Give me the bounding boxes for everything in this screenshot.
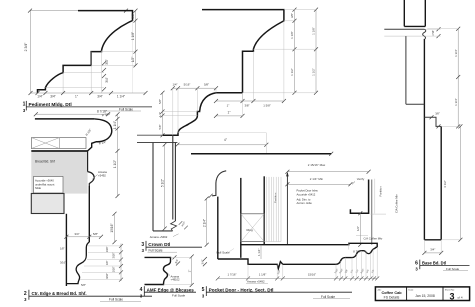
right dim extensions	[243, 10, 317, 93]
bottom strip profile	[218, 247, 377, 268]
svg-text:1 7/16": 1 7/16"	[227, 272, 236, 276]
dim 4 inch	[177, 144, 266, 146]
svg-text:Coffee Cab: Coffee Cab	[381, 291, 402, 295]
svg-text:6: 6	[415, 260, 418, 266]
bottom dim row line	[218, 277, 377, 279]
svg-text:3/4": 3/4"	[201, 259, 205, 264]
dim 2 1/4 min	[287, 183, 350, 185]
svg-text:2 1/4" Min: 2 1/4" Min	[310, 177, 324, 181]
svg-text:1": 1"	[228, 111, 231, 115]
dimension left height line	[30, 11, 32, 93]
dim 4 1/2	[459, 126, 461, 239]
svg-text:8 7/8": 8 7/8"	[353, 249, 361, 253]
svg-text:1 1/8": 1 1/8"	[131, 32, 135, 40]
svg-text:Ctr. Edge & Bread Bd. Shf.: Ctr. Edge & Bread Bd. Shf.	[32, 291, 87, 296]
upper crown right dim col B	[315, 10, 317, 93]
label rule detail 6	[420, 264, 470, 266]
svg-text:3/4": 3/4"	[50, 94, 56, 98]
svg-text:Jan 15, 2008: Jan 15, 2008	[415, 294, 435, 298]
svg-text:Crown Dtl: Crown Dtl	[148, 242, 170, 247]
break squiggle	[171, 221, 177, 231]
inner dim ticks column	[102, 61, 106, 91]
right wall inner line	[371, 180, 373, 245]
svg-text:Slide: Slide	[35, 186, 41, 190]
detail 4 dims	[173, 255, 181, 265]
svg-text:Full Scale: Full Scale	[172, 293, 186, 297]
svg-text:Full Scale: Full Scale	[321, 295, 335, 299]
bullnose edge	[88, 119, 112, 151]
svg-text:1 3/4": 1 3/4"	[454, 98, 458, 106]
accuride note box	[34, 177, 64, 194]
svg-text:2 1/4": 2 1/4"	[202, 219, 206, 227]
svg-text:4 1/2": 4 1/2"	[443, 180, 447, 188]
svg-text:5: 5	[202, 287, 205, 293]
right dim ticks	[134, 9, 138, 68]
dim 3/4 left	[203, 257, 207, 266]
upper crown profile	[202, 10, 284, 93]
svg-text:5/8": 5/8"	[81, 283, 86, 287]
svg-text:1 1/2": 1 1/2"	[312, 68, 316, 76]
svg-text:Amana +5492: Amana +5492	[150, 235, 168, 239]
svg-text:1 3/4": 1 3/4"	[454, 49, 458, 57]
dim line 3/4 5/8	[66, 236, 101, 238]
hatch X lines	[59, 138, 61, 149]
crown return left outer	[152, 143, 154, 231]
svg-text:5/8": 5/8"	[93, 232, 98, 236]
extension line vertical x=132.5	[132, 21, 134, 93]
lower cabinet box	[31, 194, 64, 214]
svg-text:Accuride +5412: Accuride +5412	[297, 192, 316, 196]
svg-text:Full Scale: Full Scale	[446, 267, 460, 271]
svg-text:1": 1"	[187, 270, 191, 273]
svg-text:AMF Edge @ Bkcases: AMF Edge @ Bkcases	[147, 287, 195, 292]
dim 1/2	[359, 213, 361, 245]
amana bump profile	[88, 172, 95, 186]
bottom dim ticks	[36, 91, 148, 95]
svg-text:3/8": 3/8"	[244, 103, 249, 107]
svg-text:Ring: Ring	[247, 228, 254, 232]
door leaf centerline arrow	[286, 173, 288, 245]
svg-text:Pediment Mldg. Dtl: Pediment Mldg. Dtl	[29, 102, 72, 108]
lower crown profile	[163, 93, 216, 135]
svg-text:Accuride +3640: Accuride +3640	[35, 179, 54, 183]
counter top surface	[35, 118, 95, 120]
bottom dim line	[31, 92, 146, 94]
svg-text:1": 1"	[75, 94, 78, 98]
svg-text:15/16": 15/16"	[308, 272, 316, 276]
dimension ticks top	[28, 9, 128, 13]
base board back line	[423, 39, 425, 240]
svg-text:3: 3	[449, 291, 454, 301]
svg-text:Bread Bd. Shf: Bread Bd. Shf	[35, 160, 55, 164]
svg-text:1/4": 1/4"	[158, 112, 162, 117]
extension line horizontal y=51.6	[102, 51, 137, 53]
svg-text:3/16": 3/16"	[113, 253, 116, 259]
crown left dim extensions	[163, 112, 198, 116]
extension line vertical x=63	[62, 73, 64, 93]
svg-text:under/flat mount: under/flat mount	[35, 182, 55, 186]
svg-text:+5492: +5492	[98, 173, 106, 177]
wall end tick	[329, 152, 333, 156]
ogee scribe profile	[423, 29, 426, 39]
svg-text:1 1/4": 1 1/4"	[117, 94, 125, 98]
svg-text:1 1/8": 1 1/8"	[259, 272, 266, 276]
svg-text:Full Scale: Full Scale	[217, 251, 231, 255]
shared middle line	[216, 92, 243, 94]
ring X	[241, 214, 264, 242]
base cap step	[424, 117, 441, 126]
counter bottom thick line	[31, 150, 88, 152]
svg-text:7/16": 7/16"	[431, 30, 435, 36]
divider 2	[442, 287, 444, 301]
label rule detail 1	[26, 106, 152, 108]
wall line	[137, 134, 163, 136]
divider 1	[406, 287, 408, 301]
extension line horizontal y=65.4	[91, 64, 136, 66]
svg-text:5 1/2": 5 1/2"	[160, 179, 164, 187]
dimension tick left bottom	[29, 91, 33, 95]
svg-text:Accom. Hdw.: Accom. Hdw.	[297, 201, 313, 205]
extension line horizontal y=72.7	[63, 72, 104, 74]
right dim col upper	[117, 114, 119, 196]
separator	[25, 101, 27, 111]
svg-text:1/8": 1/8"	[106, 261, 109, 265]
svg-text:1 1/2": 1 1/2"	[113, 160, 117, 168]
partition wall right line	[263, 176, 265, 244]
svg-text:15/16": 15/16"	[110, 223, 114, 232]
svg-text:5/8": 5/8"	[158, 124, 162, 129]
svg-text:C/A Coffee Mkr: C/A Coffee Mkr	[364, 236, 383, 240]
svg-text:3/4": 3/4"	[105, 77, 109, 83]
right dim col	[457, 29, 459, 127]
svg-text:3/4": 3/4"	[74, 232, 79, 236]
svg-text:3/8": 3/8"	[290, 13, 294, 18]
shelf bottom light line	[384, 35, 420, 37]
hatch box (counter substrate)	[31, 138, 86, 149]
svg-text:3/4": 3/4"	[97, 94, 103, 98]
svg-text:Base Bd. Dtl: Base Bd. Dtl	[422, 261, 446, 266]
dim 8 7/16	[36, 113, 108, 115]
counter edge lower ogee profile	[66, 242, 89, 284]
crown return left	[172, 135, 174, 219]
extension line horizontal y=87.7	[45, 87, 104, 89]
svg-text:2: 2	[24, 291, 27, 297]
label rule detail 3	[146, 246, 202, 248]
scribe left line	[403, 0, 405, 26]
dim 3/4 base	[424, 252, 441, 254]
svg-text:Pocket Door Inbw: Pocket Door Inbw	[297, 189, 318, 193]
right wall step	[350, 180, 368, 214]
svg-text:3/4": 3/4"	[105, 59, 109, 65]
svg-text:3/4": 3/4"	[430, 248, 435, 252]
svg-text:Amana +5492: Amana +5492	[247, 280, 265, 284]
dim 1 1/4 rotated	[260, 245, 262, 259]
top wall line	[191, 153, 331, 155]
cabinet face front line	[65, 214, 67, 286]
svg-text:3/16": 3/16"	[106, 273, 109, 279]
extension line vertical x=101.5	[101, 51, 103, 93]
upper crown bottom dim	[216, 100, 284, 102]
base board bottom	[424, 239, 441, 241]
extension lines strip	[248, 247, 377, 278]
svg-text:3/16": 3/16"	[60, 261, 66, 265]
svg-text:3/8": 3/8"	[435, 111, 440, 115]
scribe bottom	[404, 25, 425, 27]
svg-text:1/8": 1/8"	[60, 247, 65, 251]
svg-text:4: 4	[140, 287, 143, 293]
svg-text:5/16": 5/16"	[184, 83, 191, 87]
label rule detail 5	[206, 291, 352, 293]
shelf line	[384, 28, 424, 30]
svg-text:Date:: Date:	[409, 289, 415, 292]
tiny dim cluster	[80, 246, 121, 280]
svg-text:Partition: Partition	[274, 192, 278, 203]
svg-text:Pocket Door - Horiz. Sect. Dtl: Pocket Door - Horiz. Sect. Dtl	[209, 287, 274, 292]
break dim ticks	[179, 221, 188, 229]
svg-text:1 1/8": 1 1/8"	[290, 31, 294, 39]
svg-text:FS Details: FS Details	[384, 296, 400, 300]
crown left dim col	[162, 93, 164, 135]
svg-text:3/8": 3/8"	[131, 13, 135, 19]
svg-text:Partition: Partition	[379, 186, 383, 197]
ring blocking box	[241, 214, 264, 242]
svg-text:Full Scale: Full Scale	[149, 248, 163, 252]
right dim column line	[135, 11, 137, 66]
svg-text:1 1/8": 1 1/8"	[312, 27, 316, 35]
svg-text:2 3/4": 2 3/4"	[24, 42, 28, 52]
amana leader	[92, 175, 98, 180]
svg-text:Full Scale: Full Scale	[109, 298, 123, 302]
dim 1 inch	[216, 115, 243, 117]
dimension top width line	[30, 10, 126, 12]
base board face line	[440, 126, 442, 239]
pocket door leaf lines	[267, 177, 281, 242]
label rule detail 2	[29, 295, 152, 297]
svg-text:+49102: +49102	[171, 278, 181, 282]
crown return right	[174, 143, 176, 222]
svg-text:1 1/2": 1 1/2"	[290, 68, 294, 76]
channel bottom	[406, 103, 425, 105]
svg-text:5/8": 5/8"	[204, 83, 209, 87]
cabinet face back line	[88, 186, 90, 242]
crown return bottom	[153, 230, 173, 232]
dim 5 1/2 vertical	[164, 145, 166, 229]
upper crown right dim col A	[294, 10, 296, 93]
shelf right edge	[87, 151, 89, 172]
svg-text:1/16": 1/16"	[106, 246, 109, 252]
svg-text:1: 1	[23, 101, 26, 107]
dim 7/16	[437, 27, 441, 38]
svg-text:Adj. Dim. to: Adj. Dim. to	[297, 197, 311, 201]
svg-text:1/4": 1/4"	[172, 83, 177, 87]
shelf top line	[145, 257, 171, 284]
svg-text:C/A Coffee Mkr: C/A Coffee Mkr	[395, 194, 399, 213]
svg-text:1/2": 1/2"	[356, 226, 360, 231]
jamb front face	[217, 197, 219, 259]
svg-text:of 4: of 4	[458, 296, 463, 300]
dim 2 1/4 vertical	[206, 199, 208, 245]
crown top dim row	[173, 87, 216, 89]
dim 2 15/16 max	[287, 171, 368, 173]
crown top dim extensions	[173, 88, 216, 135]
svg-text:4": 4"	[224, 138, 227, 142]
svg-text:1 1/4": 1 1/4"	[257, 249, 261, 256]
svg-text:1/2": 1/2"	[131, 57, 135, 63]
svg-text:5/8": 5/8"	[158, 99, 162, 104]
bottom strip top line	[241, 243, 377, 247]
gray shelf fill	[31, 152, 87, 194]
channel left line	[405, 36, 407, 104]
svg-text:1": 1"	[227, 103, 230, 107]
jamb cap profile	[212, 171, 226, 196]
title block outer	[375, 287, 469, 301]
svg-text:3: 3	[141, 242, 144, 248]
soffit line	[137, 142, 177, 144]
dim 3/8	[430, 115, 441, 128]
pediment profile	[38, 11, 133, 93]
svg-text:1/4": 1/4"	[37, 94, 43, 98]
svg-text:2 15/16" Max: 2 15/16" Max	[308, 163, 326, 167]
svg-text:1 5/8": 1 5/8"	[263, 103, 270, 107]
svg-text:1 1/4": 1 1/4"	[113, 121, 117, 129]
extension line vertical x=91	[90, 52, 92, 93]
15/16 dim	[113, 212, 117, 244]
label rule detail 4	[144, 291, 196, 293]
partition wall left line	[240, 178, 242, 258]
svg-text:1/16": 1/16"	[113, 266, 116, 272]
bottom dim ticks	[216, 276, 379, 280]
scribe right line	[424, 0, 426, 26]
svg-text:Verify: Verify	[357, 177, 365, 181]
